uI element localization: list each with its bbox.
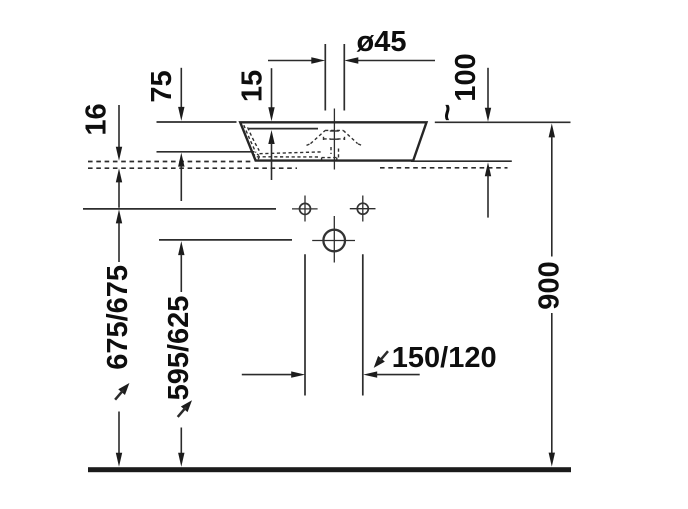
basin inner rim line (15 mm reference) [249,128,318,130]
dimension 675/675 down arrow onto floor [116,453,122,467]
dimension 16 up arrow onto lower dashed line [116,168,122,182]
dimension 75 outside up arrow under line B [178,153,184,167]
counter top line left segment [157,121,237,123]
dimension 15 down arrow onto basin rim [268,107,274,121]
drain funnel mid bar dashed right part [337,138,344,140]
drain funnel right slant dashed [343,130,357,143]
dimension 150/120 left line [242,374,293,376]
basin interior hidden detail dashes [244,125,362,162]
svg-text:675/675: 675/675 [102,265,134,370]
dimension 900 upper stem [551,136,553,256]
svg-text:75: 75 [146,70,178,102]
svg-text:900: 900 [534,261,566,309]
dimension 900 up arrow onto counter line [549,123,555,137]
dimension ~100 down arrow onto counter line [485,108,491,122]
dimension 900 lower stem [551,313,553,453]
drain hole edge line right [343,44,345,111]
shelf reference line B left [157,151,255,153]
leader arrow for 675/675 [112,380,133,402]
faucet hole circle 2 [357,203,368,214]
dimension 16 down arrow onto upper dashed line [116,147,122,161]
drain funnel mid bar right end tick [344,137,346,142]
drain funnel top dashed [325,129,343,131]
dimension ~100 up arrow onto mounting line [485,162,491,176]
drain outlet dashed right edge [336,158,338,163]
vertical center axis through basin [333,109,335,170]
center axis tick at funnel mid [330,138,339,140]
dimension ~100 lower stem [487,175,489,217]
dashed lines group [88,162,508,169]
drain funnel right foot dash [358,144,362,146]
leader arrow for 150/120 [370,348,391,370]
dimension 595/625 lower stem [180,428,182,454]
svg-text:ø45: ø45 [357,26,407,58]
dimension 675/675 upper stem [118,222,120,262]
center axis tick at funnel top [330,130,339,132]
overflow circle horizontal centerline [312,240,355,242]
dimension 15 vertical line [271,68,273,108]
faucet hole 1 horizontal centerline [292,208,318,210]
basin outline trapezoid [240,122,426,160]
lower dashed wall line left run [88,167,297,169]
dimension 150/120 left-pointing arrow [363,371,377,377]
floor line [88,467,571,472]
vertical center axis through overflow circle [333,216,335,263]
mounting plane solid line right of basin [411,160,512,162]
faucet hole 1 vertical centerline [304,196,306,222]
drain outlet dashed left edge [321,158,323,163]
drain hole edge line left [324,44,326,111]
drain funnel left foot dash [307,144,311,146]
dimension 595/625 upper stem [180,254,182,292]
svg-text:595/625: 595/625 [163,296,195,401]
dimension o45 right line with left-pointing arrow [357,60,435,62]
faucet hole circle 1 [300,203,311,214]
drain pipe left dashed edge [330,147,332,154]
dimension 150/120 right-pointing arrow [291,371,305,377]
drain funnel mid bar left end tick [323,137,325,142]
faucet hole 2 vertical centerline [362,196,364,222]
svg-text:15: 15 [237,70,269,102]
lower dashed wall line right run [380,167,508,169]
dimension 75 lower stem [180,166,182,202]
horizontal centerline 1 (faucet axis) [83,208,276,210]
drain outlet dashed top [322,157,337,159]
svg-text:100: 100 [450,53,482,101]
leader arrow for 595/625 [174,397,195,419]
bowl bottom curl detail [254,154,259,159]
svg-text:150/120: 150/120 [392,342,497,374]
dimension 16 upper stem [118,105,120,148]
bowl bottom lower dashed line [257,156,319,158]
counter top line right segment [435,121,571,123]
dimension ~100 vertical line [487,68,489,109]
dimension 595/625 down arrow onto floor [178,453,184,467]
faucet hole 2 horizontal centerline [350,208,376,210]
drain funnel left slant dashed [311,131,326,144]
dimension 900 down arrow onto floor [549,453,555,467]
bowl bottom upper dashed line [260,152,322,154]
extension line below faucet hole 1 [304,254,306,395]
dimension 675/675 up arrow onto centerline 1 [116,209,122,223]
inner bowl contour inner dashed curve [248,127,260,150]
upper dashed wall line [88,161,252,163]
dimension 675/675 lower stem [118,412,120,454]
horizontal centerline 2 (overflow axis) [159,239,292,241]
inner bowl contour outer dashed curve [244,125,256,152]
extension line below faucet hole 2 [362,254,364,395]
drain pipe right dashed edge [338,149,340,158]
dimension o45 left line with right-pointing arrow [268,60,313,62]
dimension 16 / 675 connector stem [118,181,120,207]
overflow/drain circle [323,230,345,252]
dimension 595/625 up arrow onto centerline 2 [178,241,184,255]
dimension 75 down arrow onto counter top [178,107,184,121]
drain funnel mid bar dashed [324,138,331,140]
dimension 150/120 right line [376,374,420,376]
dimension 15 lower stem [271,143,273,180]
dimension 75 vertical line [180,68,182,108]
svg-text:~: ~ [431,104,464,122]
dimension 15 up arrow onto inner rim line [268,130,274,144]
svg-text:16: 16 [81,103,113,135]
